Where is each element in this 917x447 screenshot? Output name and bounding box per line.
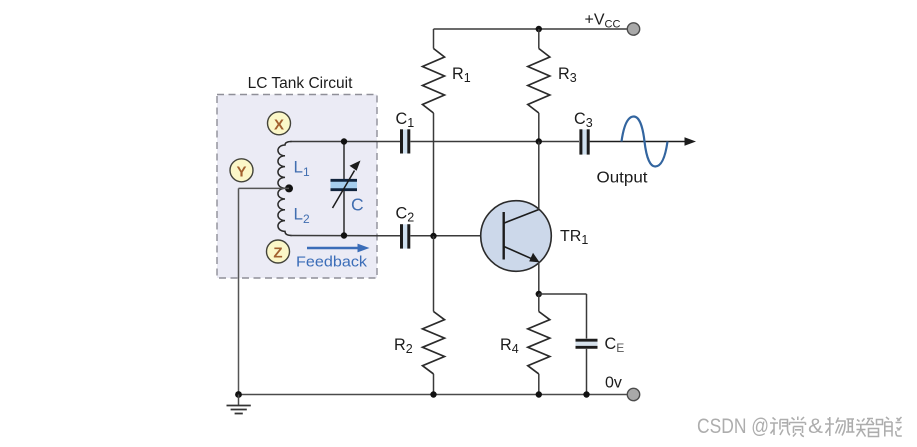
wire: R1 bottom to base line (crosses output line, no dot)	[433, 113, 435, 236]
svg-text:CSDN @: CSDN @	[697, 415, 769, 438]
node: cap bottom junction dot	[341, 232, 347, 238]
wire: collector lead down from node	[538, 142, 540, 210]
node Y terminal circle	[230, 159, 253, 182]
resistor R1	[423, 49, 445, 114]
ground symbol	[227, 395, 251, 414]
inductor L1 (top half of tapped coil)	[278, 142, 292, 189]
capacitor C3	[581, 129, 588, 154]
wire: emitter lead down to emitter node	[538, 262, 540, 294]
svg-text:Y: Y	[236, 163, 246, 180]
glyph 联	[846, 419, 866, 437]
node: cap top junction dot	[341, 138, 347, 144]
svg-text:R4: R4	[500, 336, 519, 356]
wire: R2 bottom lead	[433, 374, 435, 395]
transistor TR1	[481, 201, 552, 272]
wire: output line with arrow	[590, 141, 687, 143]
svg-text:R3: R3	[558, 65, 577, 85]
wire: Y drop down to ground rail	[238, 188, 240, 394]
wire: CE branch lower lead	[586, 349, 588, 395]
svg-text:R2: R2	[394, 336, 413, 356]
wire: tank bottom line from coil to C2	[291, 235, 402, 237]
node: base bias junction dot	[430, 233, 436, 239]
resistor R2	[423, 312, 445, 374]
glyph 视	[770, 418, 790, 436]
wire: bottom rail (0v)	[239, 394, 634, 396]
svg-text:R1: R1	[452, 65, 471, 85]
wire: base line C2 to transistor base	[410, 235, 503, 237]
wire: emitter node to CE branch	[539, 293, 587, 295]
wire: R4 bottom lead	[538, 374, 540, 395]
wire: CE branch upper lead	[586, 294, 588, 339]
top rail wire (Vcc rail)	[434, 28, 634, 30]
svg-text:C: C	[351, 195, 364, 215]
resistor R3	[528, 49, 550, 114]
node: R4 bottom dot	[536, 391, 542, 397]
glyph 物	[825, 417, 845, 436]
wire: R3 bottom lead to collector node	[538, 113, 540, 142]
node: R2 bottom dot	[430, 391, 436, 397]
feedback arrow	[307, 247, 359, 250]
wire: C1 to collector node to C3	[410, 141, 579, 143]
wire: R3 top lead	[538, 29, 540, 49]
capacitor C1	[402, 129, 409, 153]
svg-text:C1: C1	[396, 110, 415, 130]
svg-text:TR1: TR1	[560, 228, 588, 247]
wire: variable capacitor branch	[343, 142, 345, 180]
output sine wave	[622, 117, 668, 167]
node Z terminal circle	[267, 240, 290, 263]
wire: tank top line from coil to C1	[291, 141, 402, 143]
variable capacitor arrow	[333, 171, 355, 209]
svg-text:0v: 0v	[605, 375, 622, 392]
terminal +Vcc	[627, 23, 639, 35]
svg-text:+VCC: +VCC	[585, 12, 621, 31]
node: CE bottom dot	[583, 391, 589, 397]
node: emitter junction dot	[536, 291, 542, 297]
glyph 能	[885, 417, 902, 437]
resistor R4	[528, 312, 550, 374]
node: ground junction dot	[235, 391, 242, 398]
capacitor C2	[402, 224, 409, 248]
svg-text:X: X	[274, 116, 284, 133]
watermark CSDN	[697, 415, 902, 438]
wire: R1 top lead	[433, 29, 435, 49]
wire: R2 top lead	[433, 236, 435, 312]
svg-text:Output: Output	[597, 170, 649, 187]
wire: tap to Y drop	[239, 187, 290, 189]
svg-text:&: &	[808, 415, 823, 438]
glyph 觉	[790, 417, 806, 437]
node: coil centre tap dot	[285, 184, 293, 192]
node: collector junction dot	[536, 138, 542, 144]
wire: R4 top lead	[538, 294, 540, 312]
svg-text:CE: CE	[605, 335, 625, 355]
variable capacitor C (plates + fill)	[331, 180, 358, 189]
LC tank circuit dashed box	[217, 95, 377, 279]
svg-text:C3: C3	[574, 110, 593, 130]
node X terminal circle	[268, 112, 291, 135]
inductor L2 (bottom half of tapped coil)	[278, 188, 292, 235]
capacitor CE	[576, 340, 598, 347]
node: Vcc junction dot	[536, 26, 542, 32]
svg-text:Feedback: Feedback	[296, 254, 368, 271]
svg-text:LC Tank Circuit: LC Tank Circuit	[248, 75, 354, 92]
terminal 0v	[627, 388, 639, 400]
glyph 智	[866, 419, 883, 437]
svg-text:C2: C2	[396, 205, 415, 225]
svg-text:Z: Z	[273, 245, 282, 262]
